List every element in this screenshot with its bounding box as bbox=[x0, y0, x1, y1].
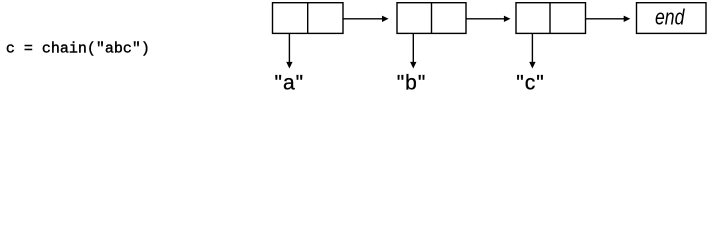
svg-text:"b": "b" bbox=[397, 72, 427, 95]
end box bbox=[637, 3, 707, 34]
node box 3 bbox=[516, 3, 586, 34]
arrow box2 -> box3 bbox=[466, 16, 511, 22]
down arrow 2 bbox=[410, 33, 416, 68]
arrow box1 -> box2 bbox=[343, 16, 389, 22]
node box 1 bbox=[273, 3, 344, 34]
svg-text:c = chain("abc"): c = chain("abc") bbox=[6, 41, 150, 58]
end text bbox=[655, 6, 685, 30]
down arrow 3 bbox=[529, 33, 535, 68]
down arrow 1 bbox=[286, 33, 292, 68]
node box 2 bbox=[397, 3, 466, 34]
svg-text:"a": "a" bbox=[275, 72, 305, 95]
arrow box3 -> end bbox=[586, 16, 631, 22]
svg-text:end: end bbox=[655, 6, 685, 30]
svg-text:"c": "c" bbox=[516, 72, 544, 95]
